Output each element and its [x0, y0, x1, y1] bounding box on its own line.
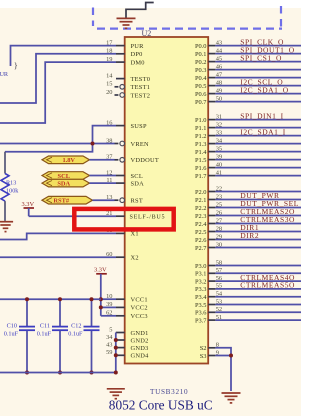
pin 48 P0.5 net I2C_SCL_O: [208, 85, 215, 87]
pin 11 SDA: [116, 182, 125, 184]
svg-text:41: 41: [216, 169, 222, 176]
junction VREN/SUSP: [91, 142, 95, 146]
svg-text:46: 46: [216, 63, 222, 70]
resistor R13: [4, 152, 6, 174]
svg-text:100k: 100k: [6, 188, 19, 195]
pin 58 P3.0: [208, 265, 215, 267]
pin 34 P1.3: [208, 143, 215, 145]
svg-text:P1.5: P1.5: [195, 157, 207, 164]
svg-text:P0.0: P0.0: [195, 43, 207, 50]
svg-text:VCC1: VCC1: [131, 297, 148, 304]
capacitor C10: [26, 299, 28, 326]
pin 18 DP0: [116, 53, 125, 55]
pin 55 P3.3 net CTRLMEAS5O: [208, 288, 215, 290]
svg-text:P2.3: P2.3: [195, 213, 207, 220]
junction GND rail: [114, 371, 118, 375]
wire GND4: [115, 354, 117, 356]
dashed sheet boundary vertical right: [280, 6, 282, 27]
svg-text:26: 26: [216, 209, 222, 216]
svg-text:P2.0: P2.0: [195, 189, 207, 196]
pin 28 P2.5 net DIR1: [208, 231, 215, 233]
wire net DP0: [0, 54, 116, 103]
svg-text:}: }: [14, 60, 18, 70]
svg-text:SELF-/BU5: SELF-/BU5: [130, 215, 166, 221]
wire net DM0: [0, 62, 116, 123]
svg-text:P1.3: P1.3: [195, 141, 207, 148]
svg-text:32: 32: [216, 121, 222, 128]
svg-text:P3.6: P3.6: [195, 310, 207, 317]
svg-text:P2.7: P2.7: [195, 245, 207, 252]
wire GND rail: [0, 372, 116, 374]
pin 34 GND2: [116, 339, 125, 341]
svg-text:I2C_SDA1_O: I2C_SDA1_O: [240, 85, 288, 94]
pin 20 TEST2: [115, 94, 119, 96]
capacitor C11: [59, 299, 61, 326]
junction GND3: [114, 346, 118, 350]
wire GND3: [115, 347, 117, 349]
svg-text:P0.3: P0.3: [195, 67, 207, 74]
wire RST: [93, 199, 115, 201]
pin 37 VDDOUT: [115, 159, 119, 161]
svg-text:RST: RST: [131, 198, 143, 205]
wire 1.8V to VDDOUT: [90, 159, 115, 161]
pin 56 P3.2 net CTRLMEAS4O: [208, 280, 215, 282]
svg-text:55: 55: [216, 283, 222, 290]
svg-text:P3.1: P3.1: [195, 271, 207, 278]
pin 14 TEST0: [116, 78, 125, 80]
svg-text:43: 43: [216, 39, 222, 46]
wire SCL: [90, 175, 117, 177]
wire S3 to ground: [215, 355, 231, 357]
svg-text:3.3V: 3.3V: [22, 201, 35, 208]
wire VCC bus vertical: [100, 299, 102, 316]
svg-text:P3.2: P3.2: [195, 278, 207, 285]
svg-text:59: 59: [106, 349, 112, 356]
pin 31 P1.0 net SPI_DIN1_I: [208, 119, 215, 121]
svg-text:TEST1: TEST1: [131, 84, 151, 91]
dashed sheet boundary vertical left: [92, 8, 94, 27]
junction VCC2: [99, 305, 103, 309]
wire VCC rail: [0, 298, 101, 300]
pin 32 P1.1: [208, 127, 215, 129]
svg-text:S2: S2: [200, 345, 207, 352]
svg-text:35: 35: [216, 145, 222, 152]
svg-text:SCL: SCL: [131, 173, 143, 180]
svg-text:P2.1: P2.1: [195, 197, 207, 204]
svg-text:C12: C12: [71, 323, 81, 330]
svg-text:P1.0: P1.0: [195, 117, 207, 124]
svg-text:44: 44: [216, 47, 223, 54]
wire GND bus vertical: [115, 333, 117, 373]
svg-text:P1.4: P1.4: [195, 149, 207, 156]
svg-text:TEST2: TEST2: [131, 92, 151, 99]
port 1.8V: [42, 156, 90, 164]
pin 46 P0.3: [208, 69, 215, 71]
svg-text:57: 57: [216, 267, 223, 274]
port SDA: [42, 179, 90, 187]
svg-text:P2.5: P2.5: [195, 229, 207, 236]
port SCL: [42, 172, 90, 180]
svg-text:5: 5: [109, 326, 112, 333]
pin 15 TEST1: [115, 86, 119, 88]
svg-text:43: 43: [106, 341, 112, 348]
svg-text:33: 33: [216, 129, 222, 136]
svg-text:PUR: PUR: [131, 43, 145, 50]
svg-text:45: 45: [216, 55, 222, 62]
pin 21 SELF-/BU5: [116, 215, 125, 217]
svg-text:R13: R13: [6, 180, 16, 187]
svg-text:SPI_DIN1_I: SPI_DIN1_I: [240, 111, 283, 120]
wire GND2: [115, 339, 117, 341]
svg-text:48: 48: [216, 79, 222, 86]
svg-text:P3.0: P3.0: [195, 263, 207, 270]
pin 22 P2.0: [208, 191, 215, 193]
ground bottom right: [222, 393, 241, 403]
svg-text:P0.1: P0.1: [195, 51, 207, 58]
svg-text:0.1uF: 0.1uF: [68, 331, 83, 338]
pin 43 GND3: [116, 347, 125, 349]
wire net PUR: [11, 46, 117, 66]
svg-text:P0.5: P0.5: [195, 83, 207, 90]
svg-text:PUR: PUR: [0, 71, 9, 78]
pin 26 P2.3 net CTRLMEAS2O: [208, 215, 215, 217]
pin 38 VREN: [115, 143, 119, 145]
svg-text:P3.5: P3.5: [195, 302, 207, 309]
svg-text:VCC2: VCC2: [131, 305, 148, 312]
pin 50 P0.7: [208, 101, 215, 103]
junction VCC1: [99, 297, 103, 301]
svg-text:0.1uF: 0.1uF: [37, 331, 52, 338]
capacitor C12: [91, 299, 93, 326]
port RST#: [42, 196, 93, 204]
svg-text:3.3V: 3.3V: [94, 267, 107, 274]
pin 62 VCC3: [116, 315, 125, 317]
red highlight box: [74, 209, 173, 230]
svg-text:SDA: SDA: [57, 181, 70, 188]
svg-text:SUSP: SUSP: [131, 123, 147, 130]
svg-text:GND2: GND2: [131, 337, 149, 344]
pin 23 P2.1 net DUT_PWR: [208, 199, 215, 201]
pin 30 P2.7: [208, 247, 215, 249]
svg-text:30: 30: [216, 241, 222, 248]
svg-text:58: 58: [216, 259, 222, 266]
wire SUSP to VREN node: [5, 126, 116, 152]
wire net X1: [0, 233, 116, 239]
svg-text:56: 56: [216, 275, 222, 282]
svg-text:GND1: GND1: [131, 330, 149, 337]
svg-text:50: 50: [216, 95, 222, 102]
svg-text:34: 34: [216, 137, 223, 144]
pin 12 SCL: [116, 175, 125, 177]
ground R13: [0, 222, 13, 232]
svg-text:P1.6: P1.6: [195, 165, 207, 172]
pin 35 P1.4: [208, 151, 215, 153]
svg-text:C11: C11: [40, 323, 50, 330]
wire GND1: [115, 332, 117, 334]
svg-text:VREN: VREN: [131, 141, 150, 148]
pin 59 GND4: [116, 354, 125, 356]
svg-text:53: 53: [216, 298, 222, 305]
svg-text:RST#: RST#: [53, 198, 69, 205]
svg-text:S3: S3: [200, 353, 207, 360]
wire VCC1: [101, 298, 116, 300]
pin 33 P1.2 net I2C_SDA1_I: [208, 135, 215, 137]
pin 17 PUR: [116, 45, 125, 47]
pin 16 SUSP: [116, 125, 125, 127]
svg-text:31: 31: [216, 113, 222, 120]
wire VCC3: [101, 315, 116, 317]
svg-text:P2.4: P2.4: [195, 221, 207, 228]
ground top: [117, 18, 136, 28]
pin 51 P3.7: [208, 319, 215, 321]
svg-text:P2.2: P2.2: [195, 205, 207, 212]
svg-text:28: 28: [216, 225, 222, 232]
svg-text:VDDOUT: VDDOUT: [131, 157, 159, 164]
wire net X2: [0, 256, 116, 258]
svg-text:P1.1: P1.1: [195, 125, 207, 132]
IC U2 TUSB3210 body: [125, 37, 209, 364]
svg-text:P0.4: P0.4: [195, 75, 207, 82]
svg-text:29: 29: [216, 233, 222, 240]
svg-text:25: 25: [216, 201, 222, 208]
pin 19 DM0: [116, 61, 125, 63]
svg-text:0.1uF: 0.1uF: [4, 331, 19, 338]
svg-text:P2.6: P2.6: [195, 237, 207, 244]
svg-text:GND4: GND4: [131, 353, 150, 360]
pin 54 P3.4: [208, 296, 215, 298]
wire S2 to ground: [215, 348, 231, 391]
svg-text:P1.2: P1.2: [195, 133, 207, 140]
svg-text:23: 23: [216, 193, 222, 200]
pin 41 P1.7: [208, 175, 215, 177]
pin 60 X2: [116, 256, 125, 258]
dashed sheet boundary horizontal: [97, 28, 282, 30]
pin 29 P2.6 net DIR2: [208, 239, 215, 241]
svg-text:27: 27: [216, 217, 223, 224]
svg-text:DP0: DP0: [131, 51, 143, 58]
svg-text:P0.6: P0.6: [195, 91, 207, 98]
pin 57 P3.1: [208, 272, 215, 274]
pin 25 P2.2 net DUT_PWR_SEL: [208, 207, 215, 209]
svg-text:52: 52: [216, 306, 222, 313]
wire SELF: [29, 215, 116, 217]
svg-text:14: 14: [106, 72, 113, 79]
ground bottom left: [107, 389, 125, 399]
svg-text:P0.7: P0.7: [195, 99, 207, 106]
svg-text:X1: X1: [131, 231, 139, 238]
svg-text:40: 40: [216, 161, 222, 168]
pin 53 P3.5: [208, 304, 215, 306]
pin 61 X1: [116, 232, 125, 234]
svg-text:P3.7: P3.7: [195, 317, 207, 324]
pin 10 VCC1: [116, 298, 125, 300]
pin 13 RST: [115, 199, 119, 201]
pin 52 P3.6: [208, 311, 215, 313]
wire SDA: [90, 182, 117, 184]
svg-text:SDA: SDA: [131, 180, 145, 187]
wire to top ground: [126, 3, 154, 19]
pin 44 P0.1 net SPI_DOUT1_O: [208, 53, 215, 55]
svg-text:51: 51: [216, 314, 222, 321]
svg-text:TUSB3210: TUSB3210: [150, 388, 188, 396]
svg-text:54: 54: [216, 291, 223, 298]
pin 40 P1.6: [208, 167, 215, 169]
pin 47 P0.4: [208, 77, 215, 79]
svg-text:SPI_CS1_O: SPI_CS1_O: [240, 53, 282, 62]
svg-text:X2: X2: [131, 255, 139, 262]
junction S3/ground: [229, 354, 233, 358]
svg-text:49: 49: [216, 87, 222, 94]
pin 39 VCC2: [116, 306, 125, 308]
svg-text:34: 34: [106, 334, 113, 341]
svg-text:8052 Core USB uC: 8052 Core USB uC: [109, 397, 213, 412]
svg-text:20: 20: [106, 89, 112, 96]
junction GND4: [114, 353, 118, 357]
svg-text:1.8V: 1.8V: [62, 157, 75, 164]
pin 49 P0.6 net I2C_SDA1_O: [208, 93, 215, 95]
pin 45 P0.2 net SPI_CS1_O: [208, 61, 215, 63]
pin 8 S2: [208, 347, 215, 349]
svg-text:TEST0: TEST0: [131, 76, 151, 83]
pin 9 S3: [208, 355, 215, 357]
svg-text:39: 39: [216, 153, 222, 160]
svg-text:22: 22: [216, 185, 222, 192]
wire net VREN: [0, 143, 115, 145]
junction GND2: [114, 338, 118, 342]
svg-text:DIR2: DIR2: [240, 231, 259, 240]
white top margin band: [0, 0, 301, 8]
pin 39 P1.5: [208, 159, 215, 161]
svg-text:GND3: GND3: [131, 345, 149, 352]
svg-text:C10: C10: [7, 323, 17, 330]
svg-text:VCC3: VCC3: [131, 313, 148, 320]
wire VCC2: [101, 306, 116, 308]
pin 5 GND1: [116, 332, 125, 334]
svg-text:CTRLMEAS5O: CTRLMEAS5O: [240, 281, 295, 290]
svg-text:I2C_SDA1_I: I2C_SDA1_I: [240, 127, 286, 136]
svg-text:15: 15: [106, 81, 112, 88]
pin 27 P2.4 net CTRLMEAS3O: [208, 223, 215, 225]
svg-text:DM0: DM0: [131, 59, 145, 66]
svg-text:P3.4: P3.4: [195, 294, 207, 301]
svg-text:U2: U2: [142, 29, 152, 38]
svg-text:P1.7: P1.7: [195, 173, 207, 180]
svg-text:47: 47: [216, 71, 223, 78]
pin 43 P0.0 net SPI_CLK_O: [208, 45, 215, 47]
svg-text:P3.3: P3.3: [195, 286, 207, 293]
svg-text:P0.2: P0.2: [195, 59, 207, 66]
